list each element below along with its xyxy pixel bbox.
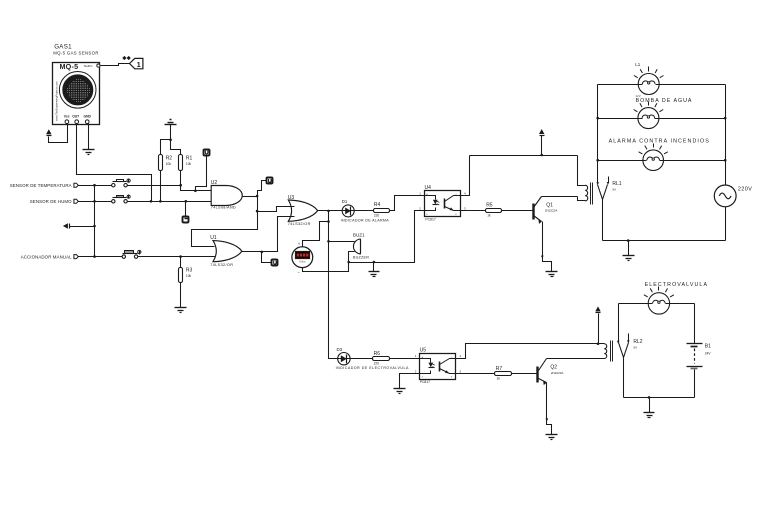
svg-text:220: 220 xyxy=(374,213,380,217)
junction RL2 arrow xyxy=(597,343,600,346)
transistor Q1 xyxy=(532,204,534,220)
wire electro ground stem xyxy=(649,398,651,413)
source 220V xyxy=(714,185,736,207)
wire logicstate C stem xyxy=(185,202,187,217)
svg-text:ACCIONADOR MANUAL: ACCIONADOR MANUAL xyxy=(21,254,72,259)
resistor R5 xyxy=(486,209,502,213)
junction ladder left r2 xyxy=(596,117,599,120)
ground ladder xyxy=(623,255,635,257)
svg-text:U5: U5 xyxy=(420,347,427,353)
ground Q1 xyxy=(546,271,558,273)
voltmeter body xyxy=(292,247,313,268)
power arrow RL2 stem xyxy=(598,314,600,344)
U5 phototransistor xyxy=(439,362,441,372)
gas sensor pins xyxy=(65,120,69,124)
wire voltmeter minus xyxy=(303,263,349,272)
junction bus humo xyxy=(93,200,96,203)
logicstate A xyxy=(204,150,210,156)
svg-text:U3: U3 xyxy=(288,195,295,201)
svg-text:U1: U1 xyxy=(210,235,217,241)
wire OUT to humo line xyxy=(77,124,152,202)
svg-text:INDICADOR DE ELECTROVALVULA: INDICADOR DE ELECTROVALVULA xyxy=(336,366,409,370)
svg-text:R3: R3 xyxy=(186,268,193,274)
svg-text:R2: R2 xyxy=(166,155,173,161)
wire U4 pin3 to R5 xyxy=(461,210,486,212)
svg-text:+: + xyxy=(298,241,301,246)
wire ladder right rail lower xyxy=(725,207,727,241)
junction electro ground xyxy=(648,396,651,399)
junction U2 branch xyxy=(256,210,259,213)
wire ladder top rail xyxy=(598,84,726,86)
svg-text:R7: R7 xyxy=(496,366,503,372)
svg-text:PC817: PC817 xyxy=(420,380,430,384)
junction R2 humo xyxy=(159,200,162,203)
svg-text:Vcc: Vcc xyxy=(64,115,70,119)
and gate U2 xyxy=(211,186,242,206)
svg-text:BOMBA DE AGUA: BOMBA DE AGUA xyxy=(636,98,693,104)
junction R1 temp xyxy=(179,184,182,187)
svg-text:220: 220 xyxy=(374,361,380,365)
svg-text:2N2222A: 2N2222A xyxy=(551,371,564,375)
wire battery stem bottom xyxy=(694,370,696,398)
wire humo line left xyxy=(79,201,112,203)
resistor R7 xyxy=(495,372,512,376)
svg-text:74LS08/AND: 74LS08/AND xyxy=(211,206,236,210)
svg-text:220V: 220V xyxy=(738,186,752,192)
relay RL2 switch xyxy=(618,304,620,342)
power arrow RL2 xyxy=(595,306,600,311)
wire ladder rail 3 xyxy=(598,160,726,162)
junction ground line xyxy=(373,261,376,264)
wire ladder right rail upper xyxy=(725,85,727,186)
ground electrovalvula xyxy=(644,412,655,414)
wire GND xyxy=(88,124,90,150)
voltmeter display xyxy=(296,252,310,259)
input pin temperatura xyxy=(74,183,78,187)
svg-text:R1: R1 xyxy=(186,155,193,161)
wire ground stem xyxy=(373,263,375,272)
junction ladder ground xyxy=(627,239,630,242)
relay RL2 core xyxy=(610,341,612,362)
wire R3 to ground xyxy=(180,283,182,308)
lamp bomba xyxy=(638,108,659,129)
wire manual to R3 xyxy=(180,257,182,268)
junction U1 out xyxy=(261,251,264,254)
wire U2 out down xyxy=(192,197,258,247)
svg-text:ELECTROVALVULA: ELECTROVALVULA xyxy=(645,282,708,288)
wire manual line left xyxy=(79,256,123,258)
wire testpin xyxy=(101,64,130,66)
power arrow RL1 xyxy=(539,129,544,134)
wire voltmeter plus xyxy=(303,222,329,247)
battery B1 xyxy=(687,343,703,345)
relay RL1 switch xyxy=(597,161,599,183)
svg-text:1: 1 xyxy=(137,60,141,69)
svg-text:74LS32/OR: 74LS32/OR xyxy=(288,222,311,226)
junction bus arrow xyxy=(93,225,96,228)
wire Q1 collector to coil xyxy=(542,197,586,201)
svg-text:5V: 5V xyxy=(612,188,616,192)
wire U2 out to probe B xyxy=(258,181,267,197)
push button temperatura xyxy=(113,181,127,183)
junction voltmeter branch xyxy=(327,220,330,223)
svg-text:1k: 1k xyxy=(487,214,491,218)
wire Vcc to power arrow xyxy=(49,124,68,143)
ground Q2 xyxy=(546,434,558,436)
svg-text:RL1: RL1 xyxy=(612,181,621,187)
power arrow Vcc xyxy=(46,129,51,134)
junction U2 out xyxy=(256,195,259,198)
ground buzzer line xyxy=(369,271,380,273)
svg-text:10k: 10k xyxy=(186,274,192,278)
gas sensor sensing window xyxy=(59,72,96,109)
svg-text:SENSOR DE HUMO: SENSOR DE HUMO xyxy=(30,199,72,204)
wire ladder bottom rail xyxy=(603,240,726,242)
junction R3 manual xyxy=(179,255,182,258)
ground U5 xyxy=(394,388,406,390)
junction rail split xyxy=(169,139,172,142)
junction logicstate C xyxy=(185,200,188,203)
svg-text:www.TheEngineeringProjects.com: www.TheEngineeringProjects.com xyxy=(55,82,59,122)
input pin manual xyxy=(74,255,78,259)
gas sensor mesh dots xyxy=(75,78,78,81)
push button manual xyxy=(123,253,138,255)
wire R5 to Q1 base xyxy=(502,210,533,212)
svg-text:MQ-5: MQ-5 xyxy=(60,62,79,71)
svg-text:R6: R6 xyxy=(374,351,381,357)
wire buzzer bottom xyxy=(349,252,355,263)
wire top rail xyxy=(470,155,578,157)
resistor R3 xyxy=(179,268,183,283)
junction out humo xyxy=(150,200,153,203)
U5 led xyxy=(420,359,431,374)
relay RL1 coil xyxy=(585,185,588,201)
power arrow RL1 stem xyxy=(541,136,543,156)
junction buzzer ground xyxy=(347,261,350,264)
transistor Q2 xyxy=(536,367,538,383)
junction rail arrow xyxy=(540,154,543,157)
wire ground line to U4 pin2 xyxy=(349,211,425,263)
relay RL1 core xyxy=(590,183,592,205)
input pin humo xyxy=(74,199,78,203)
wire temp line right xyxy=(128,186,212,191)
wire R2 bottom to humo line xyxy=(160,171,162,202)
wire U5 pin4 to RL2 coil xyxy=(456,344,605,359)
lamp alarma xyxy=(643,150,664,171)
svg-text:74LS32/OR: 74LS32/OR xyxy=(210,263,233,267)
wire ladder left rail xyxy=(597,85,599,161)
logicstate D xyxy=(272,260,278,266)
wire from rail to R2 R1 xyxy=(161,125,181,155)
wire U5 pin2 to ground xyxy=(400,374,420,389)
svg-text:TestPin: TestPin xyxy=(84,64,93,68)
svg-text:GAS1: GAS1 xyxy=(54,43,72,50)
resistor R6 xyxy=(373,357,390,361)
wire Q2 collector to coil xyxy=(547,358,605,360)
wire U3 output xyxy=(318,210,374,212)
svg-text:5V: 5V xyxy=(633,346,637,350)
svg-text:D3: D3 xyxy=(337,347,343,352)
junction ladder left r3 xyxy=(596,159,599,162)
wire U1 output xyxy=(242,217,295,252)
resistor R4 xyxy=(374,209,390,213)
wire U4 pin4 up to rail xyxy=(461,156,470,196)
svg-text:L1: L1 xyxy=(635,62,641,67)
optocoupler U5 box xyxy=(420,354,456,380)
wire R4 to U4 pin1 xyxy=(390,196,425,211)
svg-text:Volts: Volts xyxy=(299,259,306,263)
wire manual line right xyxy=(138,256,216,258)
svg-text:SENSOR DE TEMPERATURA: SENSOR DE TEMPERATURA xyxy=(10,183,72,188)
svg-text:ALARMA CONTRA INCENDIOS: ALARMA CONTRA INCENDIOS xyxy=(609,139,710,145)
emitter wire mark Q2 xyxy=(546,418,549,421)
lamp electrovalvula xyxy=(648,293,669,314)
wire battery stem top xyxy=(694,304,696,344)
wire U5 pin3 to R7 xyxy=(456,373,495,375)
svg-text:PC817: PC817 xyxy=(425,218,435,222)
wire R1 bottom to temp line xyxy=(180,171,182,186)
svg-text:MQ-5 GAS SENSOR: MQ-5 GAS SENSOR xyxy=(53,51,99,56)
svg-text:R4: R4 xyxy=(374,202,381,208)
wire U2 out to U3 input xyxy=(258,207,295,212)
ground R3 xyxy=(175,307,187,309)
or gate U3 xyxy=(288,200,317,221)
or gate U1 xyxy=(213,241,242,262)
wire U2 output xyxy=(243,196,258,198)
wire ladder rail 2 xyxy=(598,118,726,120)
ground sensor xyxy=(83,149,95,151)
wire temp line left xyxy=(79,185,112,187)
junction bus manual xyxy=(93,255,96,258)
wire buzzer top xyxy=(329,241,355,243)
svg-text:U4: U4 xyxy=(425,185,432,191)
wire Q2 emitter down xyxy=(547,383,552,435)
optocoupler U4 box xyxy=(425,191,461,217)
logicstate B xyxy=(267,178,273,184)
emitter wire mark Q1 xyxy=(541,256,544,259)
wire bus to left arrow xyxy=(70,226,95,228)
svg-text:U2: U2 xyxy=(211,180,218,186)
wire U1 out to probe D xyxy=(262,252,272,263)
wire humo line right xyxy=(128,201,212,203)
U4 phototransistor xyxy=(444,199,446,209)
svg-text:B1: B1 xyxy=(705,344,711,350)
relay RL1 coil feed xyxy=(578,156,586,186)
U4 led xyxy=(425,196,436,211)
svg-text:BUZZER: BUZZER xyxy=(353,256,369,260)
wire U3 out down to D3 xyxy=(329,211,373,359)
svg-text:INDICADOR DE ALARMA: INDICADOR DE ALARMA xyxy=(341,218,390,222)
svg-text:RL2: RL2 xyxy=(633,339,642,345)
junction temp jog probe xyxy=(194,190,197,193)
resistor R1 xyxy=(179,155,183,171)
resistor R2 xyxy=(159,155,163,171)
junction ladder right r3 xyxy=(724,159,727,162)
svg-text:OUT: OUT xyxy=(72,115,79,119)
svg-text:24V: 24V xyxy=(705,351,712,355)
power arrow left xyxy=(63,223,68,228)
wire electro bottom rail xyxy=(624,397,695,399)
wire ladder ground stem xyxy=(628,241,630,256)
svg-text:GND: GND xyxy=(84,115,92,119)
power rail symbol (inverted ground) xyxy=(170,119,172,121)
wire R6 to U5 pin1 xyxy=(390,358,420,360)
junction bus temp xyxy=(93,184,96,187)
testpin tag 1 xyxy=(130,58,143,68)
svg-text:-: - xyxy=(298,270,300,276)
junction ladder right r2 xyxy=(724,117,727,120)
junction buzzer branch xyxy=(327,240,330,243)
logicstate C xyxy=(183,217,189,223)
wire Q1 emitter down xyxy=(543,222,552,272)
wire electro top rail xyxy=(619,303,695,305)
relay RL2 coil xyxy=(604,344,606,359)
svg-text:D1: D1 xyxy=(342,199,348,204)
svg-text:Q2: Q2 xyxy=(550,365,557,371)
junction U3 out xyxy=(327,210,330,213)
wire R7 to Q2 base xyxy=(512,373,537,375)
svg-text:Q1: Q1 xyxy=(546,202,553,208)
wire vertical bus xyxy=(94,186,96,257)
svg-text:1k: 1k xyxy=(497,377,501,381)
testpin arrows xyxy=(122,56,126,60)
svg-text:R5: R5 xyxy=(486,202,493,208)
gas sensor GAS1 body xyxy=(53,63,100,125)
svg-text:10k: 10k xyxy=(186,162,192,166)
push button humo xyxy=(113,197,127,199)
svg-text:2N2222A: 2N2222A xyxy=(545,209,558,213)
svg-text:10k: 10k xyxy=(166,162,172,166)
wire logicstate A stem xyxy=(196,156,207,191)
svg-text:BUZ1: BUZ1 xyxy=(353,233,365,238)
lamp L1 xyxy=(638,74,659,95)
